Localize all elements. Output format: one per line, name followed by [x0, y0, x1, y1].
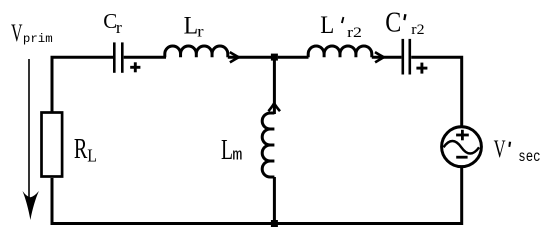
V_prim direction arrow shaft	[28, 59, 30, 198]
svg-text:L: L	[184, 12, 199, 40]
wire: node A down to L_m	[273, 57, 276, 114]
svg-text:L: L	[221, 134, 233, 166]
svg-text:sec: sec	[518, 148, 540, 166]
inductor L'r2	[308, 46, 372, 57]
label C_r	[103, 9, 122, 37]
wire: C_r to L_r	[124, 56, 166, 59]
source V'sec	[442, 127, 482, 167]
svg-text:r: r	[197, 23, 204, 40]
wire: source to bottom-right corner	[274, 167, 461, 224]
svg-text:C: C	[385, 7, 401, 39]
wire: node A to L'r2	[278, 56, 309, 59]
label C'r2	[385, 7, 424, 39]
wire: bottom node B to bottom-left corner and up to R_L	[52, 178, 274, 224]
wire: R_L up to top-left corner	[51, 57, 54, 113]
svg-text:V: V	[494, 136, 506, 163]
svg-text:prim: prim	[23, 32, 53, 46]
node B junction	[271, 220, 278, 227]
svg-text:V: V	[11, 20, 23, 47]
label L_m	[221, 134, 243, 166]
label L'r2	[320, 12, 362, 41]
label L_r	[184, 12, 205, 41]
wire: C'r2 to top-right corner down to source	[411, 57, 462, 126]
capacitor C_r polarity +	[130, 62, 140, 72]
inductor L_m	[262, 113, 274, 177]
wire: L_r to node A	[228, 56, 271, 59]
inductor L_r	[165, 46, 228, 57]
label V_prim	[11, 20, 53, 47]
wire: L_m to node B	[273, 177, 276, 224]
wire top-left: corner to C_r left plate	[52, 57, 113, 58]
current direction arrow into L_m	[268, 103, 280, 111]
svg-text:L: L	[87, 146, 97, 166]
svg-text:r: r	[116, 18, 122, 37]
svg-text:L: L	[320, 12, 334, 39]
svg-text:R: R	[74, 134, 88, 165]
wire: L'r2 to C'r2	[372, 56, 402, 59]
capacitor C_r	[114, 42, 122, 72]
capacitor C'r2	[403, 39, 410, 75]
current direction arrow on primary branch	[230, 52, 239, 62]
resistor R_L	[42, 113, 63, 177]
node A junction	[271, 54, 278, 61]
capacitor C'r2 polarity +	[416, 63, 427, 74]
label R_L	[74, 134, 97, 166]
V_prim direction arrowhead	[23, 191, 39, 220]
label V'sec	[494, 136, 541, 166]
svg-text:m: m	[232, 147, 242, 166]
svg-text:r2: r2	[347, 24, 362, 41]
svg-text:r2: r2	[411, 21, 424, 38]
current direction arrow on secondary branch	[375, 52, 384, 62]
